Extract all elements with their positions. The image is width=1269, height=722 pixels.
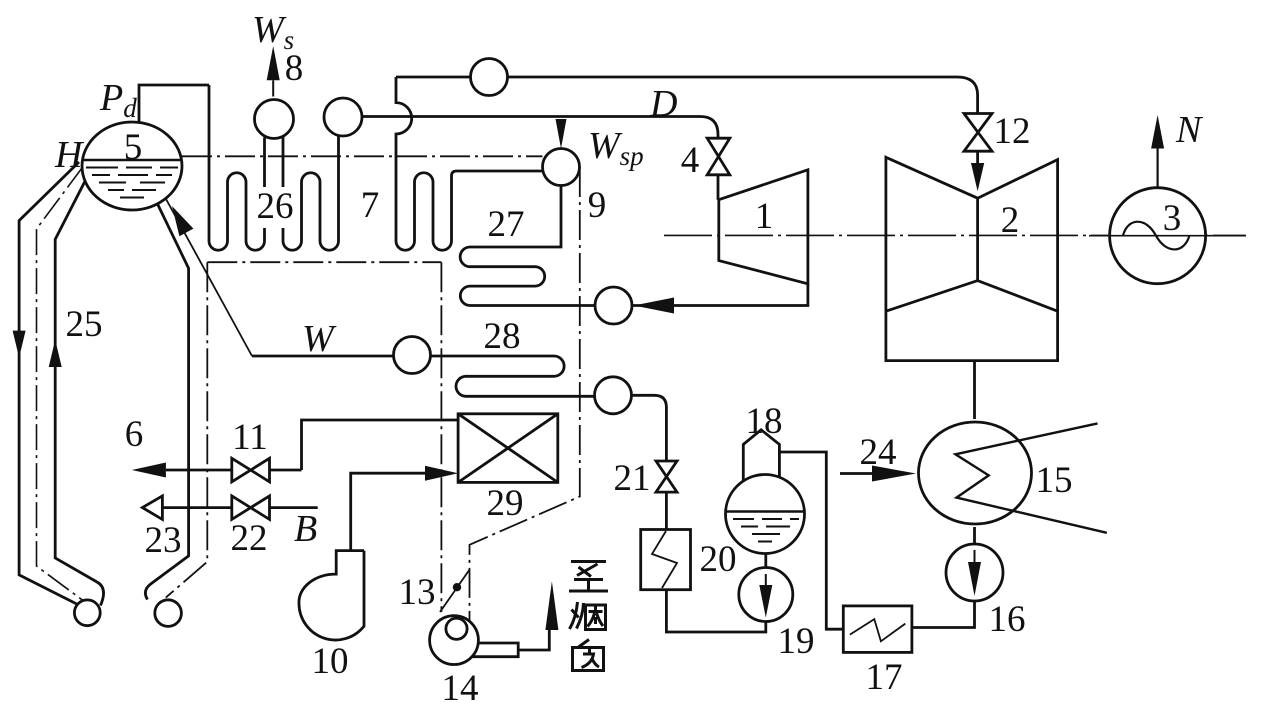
valve 4: [707, 138, 730, 175]
boiler water walls pipe 25: outer wall: [19, 162, 79, 604]
W meter: [394, 337, 431, 374]
chimney arrow: [545, 581, 558, 630]
svg-text:27: 27: [488, 204, 525, 245]
wire: drum steam lead to superheater: [139, 85, 209, 122]
pipe 25 centerline: [37, 167, 84, 601]
steam flow meter 8: [255, 100, 294, 139]
cold reheat meter: [595, 287, 632, 324]
svg-text:7: 7: [361, 185, 380, 226]
check symbol 23: [142, 496, 162, 520]
svg-text:26: 26: [257, 186, 294, 227]
valve 12 arrow into turbine 2: [976, 151, 979, 163]
header circle left: [74, 600, 100, 626]
header circle right: [155, 600, 182, 627]
spray meter Wsp: [543, 149, 580, 186]
svg-text:28: 28: [484, 316, 521, 357]
feedwater W diagonal into drum: [166, 199, 252, 356]
deaerator tank 18: [726, 475, 805, 554]
svg-text:14: 14: [442, 668, 479, 709]
deaerator dome: [743, 430, 779, 481]
svg-text:23: 23: [145, 520, 182, 561]
steam meter D: [324, 98, 362, 136]
pump 19: [739, 568, 793, 622]
reheat flow meter: [471, 59, 508, 96]
superheater coil 26: [209, 85, 339, 250]
svg-text:1: 1: [755, 196, 774, 237]
svg-text:W: W: [302, 318, 337, 360]
svg-text:N: N: [1175, 109, 1204, 151]
svg-text:25: 25: [66, 304, 103, 345]
damper 13: [440, 570, 470, 612]
svg-text:11: 11: [232, 417, 268, 458]
valve 22: [232, 496, 270, 520]
svg-text:13: 13: [399, 572, 436, 613]
wire: line 6 with arrow: [166, 469, 302, 472]
shaft centerline: [664, 234, 1246, 236]
cooling water lines: [955, 423, 1106, 532]
boundary dash-dot drum to W_sp: [182, 155, 543, 157]
generator 3: [1110, 188, 1206, 284]
wire: economizer outlet to valve 21: [632, 395, 667, 461]
svg-text:22: 22: [231, 518, 268, 559]
valve 21: [656, 461, 677, 492]
svg-text:6: 6: [125, 414, 144, 455]
wire: feedwater W line: [252, 355, 554, 358]
pipe B wall: [145, 198, 188, 600]
furnace boundary dash-dot left: [166, 262, 442, 612]
svg-text:H: H: [54, 134, 85, 176]
svg-text:12: 12: [994, 111, 1031, 152]
wire: pump 16 to condenser: [973, 527, 976, 544]
arrow feedwater into drum: [172, 206, 193, 236]
wire: AF line: [302, 420, 459, 470]
wire: valve 21 to heater 20: [665, 492, 668, 530]
economizer coil 28: [456, 356, 594, 396]
wire: heater 20 to pump 19: [666, 590, 765, 632]
svg-text:4: 4: [681, 140, 700, 181]
wire: air to preheater: [351, 473, 432, 550]
svg-text:17: 17: [866, 657, 903, 698]
drum 5: [82, 122, 182, 210]
turbine 1: [719, 170, 808, 284]
reheater coil 27: [460, 186, 595, 306]
wire: deaerator to heater 17: [779, 452, 843, 629]
svg-text:21: 21: [614, 458, 651, 499]
flue boundary line 9: [470, 167, 580, 621]
wire: turbine 1 inlet from valve 4: [717, 175, 720, 200]
pipe 25 inner wall: [55, 173, 103, 606]
drum water level: [83, 159, 182, 162]
svg-text:5: 5: [124, 127, 143, 168]
heater box 20: [641, 530, 691, 590]
fan 14: [430, 616, 479, 665]
reheater coil 7 with hop over D line: [396, 77, 543, 250]
feed flow meter: [595, 377, 632, 414]
svg-text:10: 10: [312, 641, 349, 682]
wire: hot reheat line to valve 12: [396, 77, 978, 114]
svg-text:D: D: [649, 83, 677, 125]
valve 12: [964, 114, 992, 152]
wire: turbine 2 exhaust to condenser: [973, 361, 976, 419]
svg-text:19: 19: [778, 621, 815, 662]
riser arrow: [49, 340, 62, 367]
pump 16: [946, 544, 1003, 601]
svg-text:20: 20: [700, 539, 737, 580]
wire: cold reheat from turbine 1: [632, 284, 808, 306]
valve 11: [232, 458, 270, 482]
wire: heater 17 to pump 16: [912, 601, 975, 628]
arrow 24 into condenser: [840, 472, 874, 475]
label white mask for 26: [255, 187, 297, 228]
svg-text:9: 9: [588, 185, 607, 226]
downcomer arrow: [13, 331, 26, 358]
svg-text:18: 18: [746, 401, 783, 442]
wire: blowdown line B: [162, 506, 317, 509]
wire: pump 19 to deaerator: [764, 554, 767, 568]
svg-text:24: 24: [860, 432, 897, 473]
turbine 2: [886, 157, 1058, 360]
air preheater box 29: [458, 414, 558, 483]
svg-text:15: 15: [1036, 460, 1073, 501]
svg-text:B: B: [294, 508, 317, 550]
svg-text:3: 3: [1163, 198, 1182, 239]
chinese: to chimney 至烟囱: [569, 562, 608, 671]
heater box 17: [843, 606, 912, 653]
fan 10: [299, 551, 364, 640]
Ws arrow: [272, 80, 274, 96]
svg-text:16: 16: [989, 599, 1026, 640]
condenser 15: [919, 422, 1032, 524]
N arrow: [1156, 149, 1158, 188]
svg-text:2: 2: [1001, 200, 1020, 241]
wire: main steam D line to valve 4: [362, 117, 718, 139]
svg-text:29: 29: [487, 483, 524, 524]
